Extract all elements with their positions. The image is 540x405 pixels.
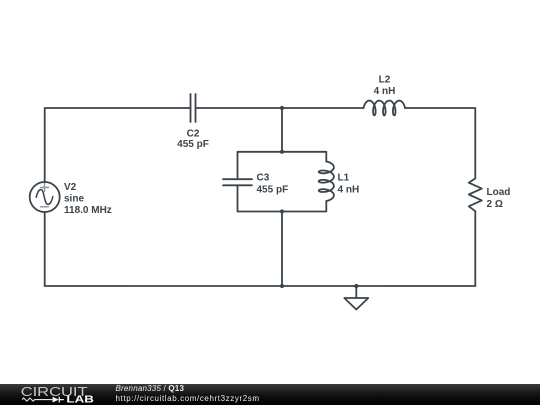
svg-text:4 nH: 4 nH [374, 86, 396, 97]
capacitor C3 plates [223, 179, 252, 185]
svg-text:C2: C2 [187, 129, 200, 140]
svg-text:455 pF: 455 pF [177, 139, 209, 150]
svg-text:2 Ω: 2 Ω [487, 199, 503, 210]
wire: left rail bottom segment (V2 bottom to bottom rail) [44, 212, 46, 286]
wire: middle column bottom (tank bottom to bottom rail) [281, 212, 283, 287]
voltage source V2 (sine, 118.0 MHz) [30, 182, 60, 212]
junction node: tank bottom [280, 209, 284, 213]
footer bar [0, 384, 540, 405]
CircuitLab logo [0, 384, 115, 405]
svg-text:LAB: LAB [66, 394, 93, 405]
svg-text:C3: C3 [257, 173, 270, 184]
wire: top rail middle segment (C2 right plate to L2) [196, 107, 364, 109]
wire: tank bottom-right corner (L1 bottom to node) [282, 201, 326, 212]
resistor Load zigzag [469, 178, 482, 211]
footer author/title text [116, 385, 185, 393]
junction node: bottom rail / middle column [280, 284, 284, 288]
footer url text [116, 395, 260, 403]
svg-text:455 pF: 455 pF [257, 185, 289, 196]
capacitor C2 plates [191, 94, 196, 122]
wire: bottom rail [45, 285, 476, 287]
ground symbol stub [355, 286, 357, 298]
svg-text:4 nH: 4 nH [338, 185, 360, 196]
logo diode bar and lead [59, 397, 64, 403]
inductor L1 coil [319, 162, 334, 202]
wire: top rail right segment (L2 to right corner down to Load) [405, 108, 475, 178]
inductor L2 coil [364, 101, 406, 116]
junction node: tank top [280, 150, 284, 154]
junction node: top rail / middle column [280, 106, 284, 110]
svg-text:sine: sine [64, 194, 84, 205]
logo resistor zigzag [22, 398, 52, 401]
ground symbol triangle [344, 298, 368, 310]
svg-text:118.0 MHz: 118.0 MHz [64, 205, 112, 216]
svg-text:V2: V2 [64, 182, 77, 193]
logo diode triangle [53, 397, 59, 403]
wire: right rail bottom segment (Load to bottom rail) [474, 211, 476, 286]
wire: tank top-right corner (node to L1 top) [282, 152, 326, 162]
junction node: bottom rail / ground [354, 284, 358, 288]
wire: middle column top (top rail to tank top) [281, 108, 283, 152]
svg-text:L2: L2 [379, 75, 391, 86]
wire: top rail left segment (V2 top to C2 left plate) [45, 108, 191, 182]
svg-text:Load: Load [487, 187, 511, 198]
wire: tank bottom-left corner (C3 bottom plate to node) [238, 185, 283, 211]
wire: tank top-left corner (node to C3 top plate) [238, 152, 283, 179]
svg-text:L1: L1 [338, 173, 350, 184]
